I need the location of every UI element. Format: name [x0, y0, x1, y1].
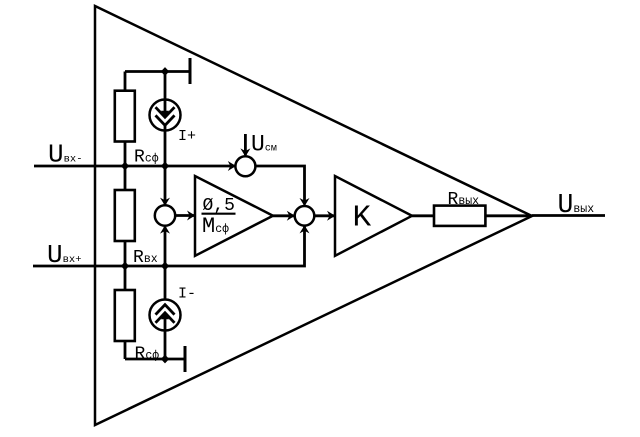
- wire Uсм stub with arrow: [240, 134, 250, 157]
- wire K output to Rвых: [412, 214, 434, 217]
- svg-text:K: K: [353, 201, 372, 236]
- wire top supply rail: [125, 70, 190, 73]
- fraction bar Mсф: [202, 213, 236, 215]
- wire Uвх+ input line (turns up into summing node B): [33, 225, 310, 266]
- wire from Uвх+ node up into summing node A: [160, 225, 170, 266]
- wire CM block output to summing node B: [273, 211, 295, 221]
- wire Uсм node output to summing node B: [256, 166, 310, 206]
- wire Uвх- input line: [34, 161, 236, 171]
- resistor Rвых: [434, 206, 485, 226]
- wire Rвых to output vertex: [485, 214, 532, 217]
- resistor Rсф (bottom): [115, 266, 135, 359]
- junction on top rail at I+ column: [161, 67, 169, 76]
- junction Uвх- line / Rсф column: [121, 162, 129, 171]
- current source I-: [150, 266, 181, 359]
- op-amp body triangle: [95, 6, 532, 425]
- junction on bottom rail at I- column: [161, 355, 169, 364]
- junction Uвх+ line / Rвх column: [121, 262, 129, 271]
- svg-text:I-: I-: [178, 286, 196, 303]
- wire summing node B output to K amp: [314, 211, 335, 221]
- wire summing node A output to CM gain block: [175, 211, 195, 221]
- resistor Rвх: [115, 166, 135, 266]
- wire output line: [532, 214, 605, 217]
- resistor Rсф (top): [115, 72, 135, 167]
- junction Uвх+ line / I- column: [161, 262, 169, 271]
- svg-text:I+: I+: [178, 128, 196, 145]
- summing node Uсм (offset adder circle): [235, 156, 255, 176]
- power terminal bar (top): [189, 58, 192, 84]
- power terminal bar (bottom): [184, 346, 187, 372]
- current source I+: [150, 72, 181, 167]
- amplifier K triangle: [335, 176, 412, 256]
- summing node B (right circle): [295, 206, 315, 226]
- junction Uвх- line / I+ column: [161, 162, 169, 171]
- summing node A (left circle): [155, 205, 175, 225]
- CM gain block triangle (0,5/Mсф): [195, 176, 273, 256]
- wire bottom supply rail: [125, 358, 185, 361]
- wire from Uвх- node down into summing node A: [160, 166, 170, 206]
